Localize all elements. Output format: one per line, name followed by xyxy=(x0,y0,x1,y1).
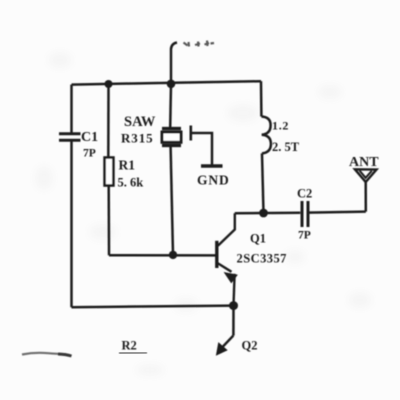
wire C1 bottom to bottom rail xyxy=(70,140,73,307)
svg-text:5. 6k: 5. 6k xyxy=(118,176,144,190)
wire antenna lead xyxy=(364,182,367,212)
SAW case plate xyxy=(190,126,193,141)
wire SAW bottom to base-rail junction xyxy=(171,147,173,255)
svg-text:7P: 7P xyxy=(83,148,96,160)
svg-text:R1: R1 xyxy=(119,158,136,173)
svg-text:1.2: 1.2 xyxy=(272,119,289,133)
wire supply down to SAW xyxy=(169,84,172,127)
power lead hook at top xyxy=(171,43,177,85)
wire emitter junction down to Q2 xyxy=(232,306,235,336)
svg-text:2SC3357: 2SC3357 xyxy=(237,252,287,266)
wire C2 to antenna corner xyxy=(308,212,366,213)
wire collector rail left segment xyxy=(235,211,300,214)
stray mark bottom left xyxy=(22,353,72,356)
ground GND xyxy=(201,164,223,168)
svg-text:GND: GND xyxy=(197,173,230,188)
svg-text:Q2: Q2 xyxy=(242,339,258,353)
resistor R1 xyxy=(105,158,114,186)
SAW resonator R315 xyxy=(162,129,181,146)
svg-text:R2: R2 xyxy=(122,339,137,353)
transistor Q1 2SC3357 xyxy=(217,213,237,305)
wire R1 bottom down to base rail xyxy=(107,186,110,256)
svg-text:C1: C1 xyxy=(81,130,98,145)
wire bottom rail xyxy=(72,306,234,308)
node: emitter / bottom rail junction xyxy=(229,301,238,310)
supply label (faded) xyxy=(184,41,215,47)
svg-text:Q1: Q1 xyxy=(250,232,266,246)
node: collector rail / inductor junction xyxy=(259,209,268,218)
svg-text:2. 5T: 2. 5T xyxy=(272,140,300,154)
svg-text:7P: 7P xyxy=(298,230,311,242)
antenna ANT xyxy=(355,169,377,182)
wire top rail xyxy=(72,81,262,84)
wire inductor branch down from top rail xyxy=(260,81,263,116)
node: SAW / base rail junction xyxy=(169,251,177,259)
wire R1 branch upper xyxy=(107,84,110,158)
svg-text:SAW: SAW xyxy=(124,114,156,130)
capacitor C1 xyxy=(59,134,81,141)
svg-text:R315: R315 xyxy=(121,131,154,146)
wire base rail xyxy=(109,254,216,257)
underline under R2 xyxy=(119,352,147,355)
svg-text:ANT: ANT xyxy=(349,155,379,170)
wire inductor bottom to collector rail xyxy=(262,153,264,213)
svg-text:C2: C2 xyxy=(297,187,312,201)
node: top-rail / R1 branch junction xyxy=(105,80,113,88)
inductor L1 1.2uH 2.5T xyxy=(261,117,271,154)
node: top-rail / supply junction xyxy=(167,80,176,89)
wire case plate to ground xyxy=(191,133,212,165)
capacitor C2 xyxy=(302,201,308,227)
wire left branch down to C1 xyxy=(70,85,73,133)
transistor Q2 (partial) xyxy=(217,336,234,355)
